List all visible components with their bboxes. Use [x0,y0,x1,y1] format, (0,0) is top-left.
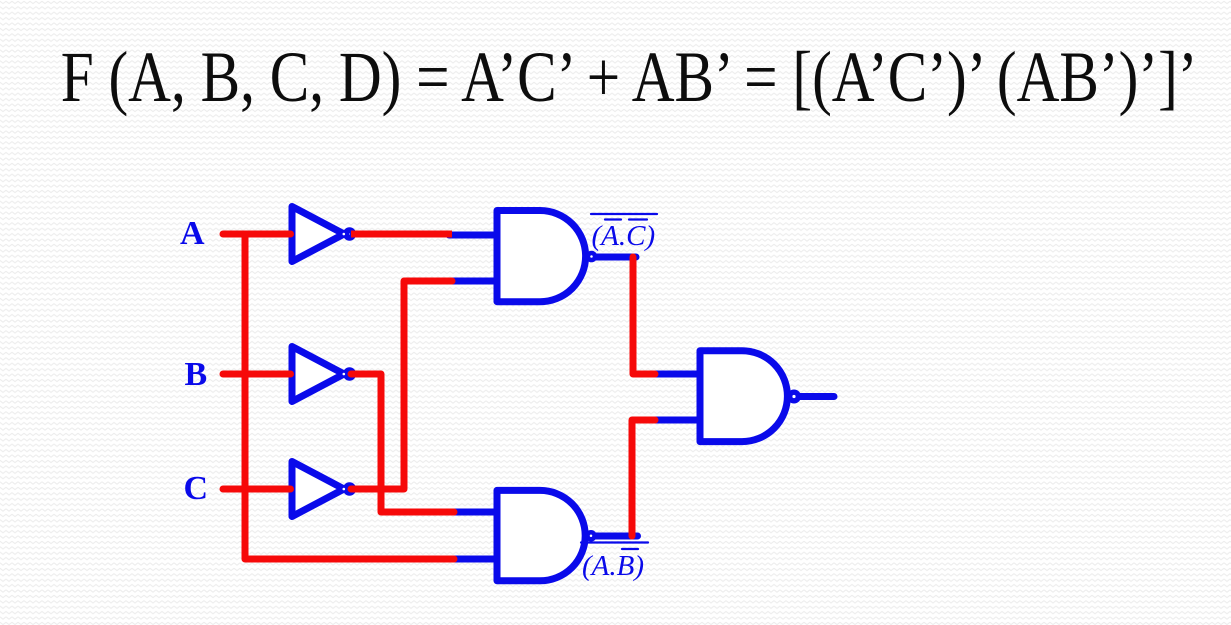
NAND gate U5 bubble [588,532,595,539]
net label (A.B')' bar over B [622,548,638,550]
svg-text:C: C [184,470,209,507]
svg-text:F (A, B, C, D) = A’C’ + AB’ =: F (A, B, C, D) = A’C’ + AB’ = [(A’C’)’ (… [61,38,1198,118]
wire: input C horizontal [223,486,291,493]
pin stub: NAND U4 output [595,254,636,261]
wire: NAND U5 output up to NAND U6 input 2 [632,420,655,536]
NAND gate U6 bubble [790,392,799,401]
pin stub: NAND U6 input 2 [651,417,701,424]
inverter U3 apex notch [343,488,346,491]
inverter U1 apex notch [343,233,346,236]
pin stub: NAND U5 output [595,533,638,540]
pin stub: NAND U4 input 2 [449,278,499,285]
inverter U2 (input B) triangle [292,347,344,402]
pin stub: NAND U4 input 1 [449,232,499,239]
pin stub: NAND U5 input 2 [449,556,499,563]
net label (A.B')' overbar whole [581,541,648,543]
NAND gate U6 body [700,351,787,442]
inverter U2 bubble [346,370,353,377]
wire: A branch vertical down to NAND U5 [245,235,454,559]
svg-text:A: A [180,215,205,252]
wire: inverter U2 output down to NAND U5 input 1 [351,374,454,512]
wire: inverter U3 output up to NAND U4 input 2 [351,281,452,489]
NAND gate U4 body [497,211,586,302]
svg-text:(A.B): (A.B) [582,550,644,582]
net label (A'.C')' bar over A [605,218,621,220]
wire: input B horizontal [223,371,291,378]
pin stub: NAND U6 output [800,393,834,400]
NAND gate U5 body [497,490,585,580]
net label (A'.C')' bar over C [629,218,647,220]
net label (A'.C')' overbar whole [591,213,657,215]
pin stub: NAND U6 input 1 [651,371,701,378]
svg-text:B: B [185,356,208,393]
wire: input A horizontal [223,231,291,238]
wire: inverter U1 output to NAND U4 input 1 [351,231,452,238]
NAND gate U4 bubble [588,253,595,260]
inverter U1 bubble [346,230,353,237]
pin stub: NAND U5 input 1 [449,509,499,516]
inverter U3 bubble [346,485,353,492]
inverter U3 (input C) triangle [292,462,344,517]
inverter U2 apex notch [343,373,346,376]
wire: NAND U4 output down to NAND U6 input 1 [633,257,655,374]
inverter U1 (input A) triangle [292,207,344,262]
svg-text:(A.C): (A.C) [592,220,656,252]
